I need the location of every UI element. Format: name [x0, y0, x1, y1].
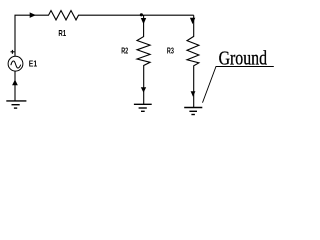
junction dot node A: [140, 13, 143, 16]
wire top loop with resistor R1 zigzag: [15, 11, 194, 57]
current arrow down below R3: [191, 91, 196, 96]
annotation leader line: [203, 67, 274, 103]
current arrow down into R2: [141, 18, 146, 24]
svg-text:E1: E1: [29, 58, 38, 68]
resistor R2 with wires: [137, 15, 150, 104]
resistor R3 with wires: [187, 15, 199, 107]
current arrow down into R3: [190, 18, 195, 24]
current arrow up at E1: [12, 80, 18, 86]
svg-text:R2: R2: [121, 45, 128, 55]
current arrow on top wire: [30, 12, 36, 18]
ground at R3: [184, 108, 202, 115]
AC source E1: [8, 56, 23, 71]
plus polarity mark: [11, 50, 15, 54]
ground at E1: [6, 101, 26, 108]
current arrow down below R2: [141, 87, 146, 92]
ground at R2: [134, 104, 152, 111]
svg-text:R1: R1: [58, 28, 66, 38]
svg-text:R3: R3: [167, 45, 174, 55]
wire E1 bottom: [14, 71, 16, 101]
svg-text:Ground: Ground: [219, 49, 268, 70]
